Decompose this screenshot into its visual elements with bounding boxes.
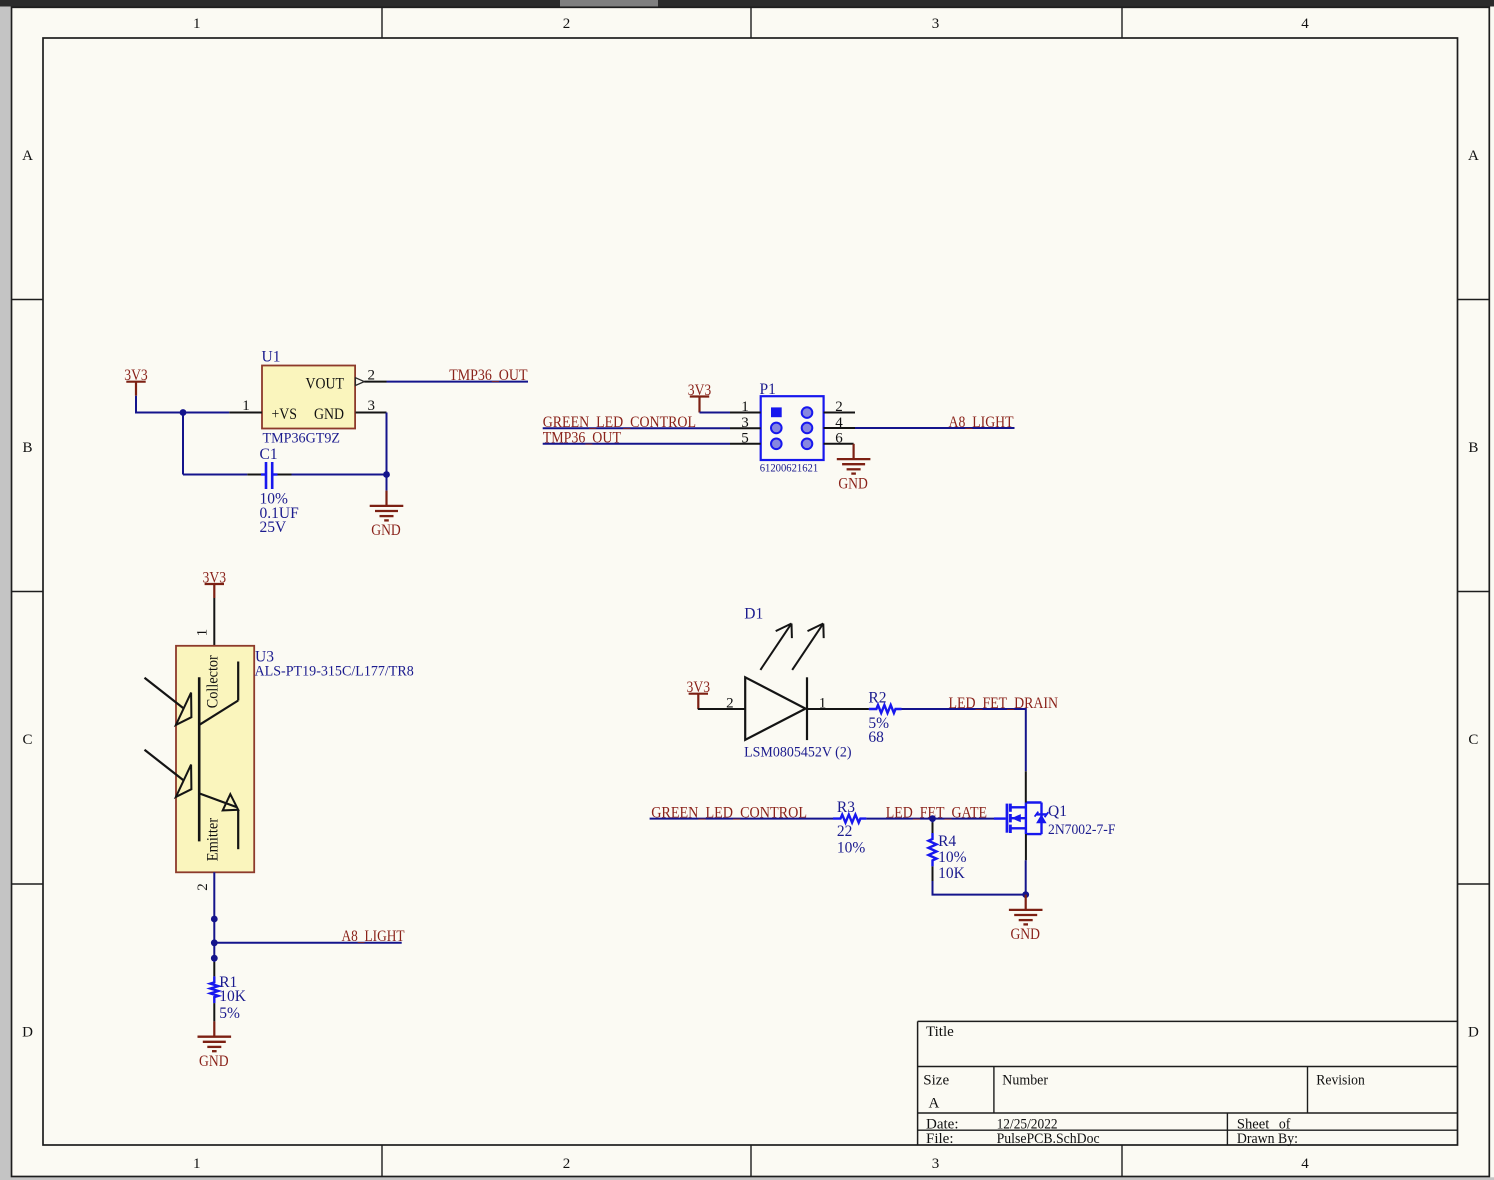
junction node at C1/GND: [383, 471, 390, 478]
svg-text:C: C: [22, 732, 32, 748]
svg-text:GND: GND: [314, 406, 344, 423]
P1 pin 3: [730, 415, 761, 431]
svg-text:Q1: Q1: [1048, 803, 1067, 820]
wire 3V3 to P1 pin 1: [700, 412, 731, 414]
net label LED_FET_DRAIN: [902, 695, 1059, 771]
junction node 2 on U3 net: [211, 939, 218, 946]
svg-text:LSM0805452V (2): LSM0805452V (2): [744, 745, 851, 761]
transistor Q1 2N7002-7-F: [994, 803, 1115, 839]
svg-text:61200621621: 61200621621: [760, 463, 819, 475]
junction node 1 on U3 net: [211, 916, 218, 923]
net label GREEN_LED_CONTROL at P1 pin 3: [543, 414, 730, 431]
svg-text:1: 1: [193, 1156, 201, 1172]
P1 pin 6: [824, 430, 854, 446]
svg-text:R3: R3: [837, 799, 855, 816]
junction node 3 on U3 net: [211, 955, 218, 962]
svg-text:22: 22: [837, 823, 853, 840]
svg-text:5: 5: [741, 430, 749, 446]
svg-text:6: 6: [835, 430, 843, 446]
P1 pin 4: [824, 415, 855, 431]
svg-text:A: A: [22, 148, 33, 164]
svg-text:ALS-PT19-315C/L177/TR8: ALS-PT19-315C/L177/TR8: [255, 663, 414, 679]
phototransistor U3 ALS-PT19-315C/L177/TR8: [176, 646, 414, 873]
wire U1 pin3 down: [386, 413, 388, 475]
svg-text:PulsePCB.SchDoc: PulsePCB.SchDoc: [997, 1131, 1100, 1147]
svg-text:Emitter: Emitter: [204, 817, 221, 861]
svg-text:GND: GND: [371, 522, 401, 539]
svg-text:2N7002-7-F: 2N7002-7-F: [1048, 822, 1115, 838]
net label TMP36_OUT at P1 pin 5: [543, 429, 730, 446]
svg-text:C: C: [1468, 732, 1478, 748]
junction node at U1 pin1 wire: [180, 409, 187, 416]
svg-text:2: 2: [563, 1156, 571, 1172]
svg-text:12/25/2022: 12/25/2022: [997, 1116, 1058, 1132]
Q1 source pin: [1025, 834, 1027, 860]
svg-text:1: 1: [195, 629, 211, 637]
wire U3 pin2 down to R1: [213, 872, 215, 962]
svg-text:3: 3: [932, 1156, 940, 1172]
wire 3V3 to U1 pin 1: [136, 396, 229, 413]
net label A8_LIGHT at P1 pin 4: [855, 414, 1015, 431]
svg-text:Title: Title: [926, 1024, 954, 1040]
light arrow 2 into U3: [145, 750, 192, 797]
U1 pin 3 GND: [356, 398, 387, 414]
net label A8_LIGHT at U3: [214, 928, 404, 945]
svg-text:3: 3: [932, 16, 940, 32]
svg-text:LED_FET_DRAIN: LED_FET_DRAIN: [949, 695, 1059, 712]
svg-text:LED_FET_GATE: LED_FET_GATE: [886, 804, 987, 821]
U1 pin 2 VOUT output pin: [355, 367, 386, 385]
P1 pin 2: [824, 399, 855, 415]
svg-text:A8_LIGHT: A8_LIGHT: [949, 414, 1014, 431]
svg-text:1: 1: [741, 399, 749, 415]
svg-text:2: 2: [835, 399, 843, 415]
U1 pin 1 +VS: [229, 398, 262, 414]
ground under U1: [370, 491, 404, 540]
junction node at R4 top: [929, 815, 936, 822]
svg-text:A: A: [1468, 148, 1479, 164]
svg-text:10K: 10K: [938, 865, 966, 882]
svg-text:GREEN_LED_CONTROL: GREEN_LED_CONTROL: [543, 414, 696, 431]
svg-text:GND: GND: [1010, 926, 1040, 943]
svg-text:GREEN_LED_CONTROL: GREEN_LED_CONTROL: [651, 804, 807, 821]
wire junction down to C1 row: [182, 413, 184, 475]
power 3V3 near D1: [687, 679, 711, 709]
svg-text:Date:: Date:: [926, 1116, 958, 1132]
resistor R4 10K: [929, 819, 967, 882]
svg-text:1: 1: [193, 16, 201, 32]
net label GREEN_LED_CONTROL at R3: [650, 804, 833, 821]
svg-text:1: 1: [242, 398, 250, 414]
svg-text:GND: GND: [199, 1053, 229, 1070]
svg-text:Sheet: Sheet: [1237, 1116, 1270, 1132]
svg-text:R2: R2: [868, 690, 886, 707]
wire C1 right to GND junction: [292, 474, 387, 476]
svg-text:4: 4: [1301, 1156, 1309, 1172]
svg-text:3: 3: [368, 398, 376, 414]
svg-text:P1: P1: [760, 381, 776, 398]
svg-text:R4: R4: [938, 833, 956, 850]
svg-text:File:: File:: [926, 1131, 954, 1147]
svg-text:3: 3: [741, 415, 749, 431]
svg-text:4: 4: [1301, 16, 1309, 32]
svg-text:68: 68: [868, 729, 884, 746]
ground under P1: [837, 444, 871, 493]
svg-text:B: B: [22, 440, 32, 456]
capacitor C1: [247, 446, 299, 536]
D1 pin 1: [807, 695, 869, 711]
svg-text:Revision: Revision: [1316, 1072, 1365, 1088]
svg-text:A: A: [929, 1095, 940, 1111]
U3 pin 2: [195, 883, 211, 891]
IC U1 TMP36GT9Z: [262, 348, 356, 446]
svg-text:4: 4: [835, 415, 843, 431]
svg-text:D: D: [1468, 1025, 1479, 1041]
Q1 drain pin: [1025, 771, 1027, 802]
resistor R2 68: [868, 690, 901, 746]
svg-text:2: 2: [368, 367, 376, 383]
net label LED_FET_GATE: [866, 804, 994, 821]
power 3V3 near U1: [124, 367, 148, 396]
svg-text:1: 1: [819, 695, 827, 711]
wire to C1 left: [183, 474, 247, 476]
svg-text:C1: C1: [260, 446, 278, 463]
svg-text:5%: 5%: [219, 1005, 240, 1022]
wire junction to ground: [386, 475, 388, 491]
connector P1 61200621621: [760, 381, 824, 475]
svg-text:10%: 10%: [938, 849, 967, 866]
svg-text:D1: D1: [744, 605, 763, 622]
U3 pin 1: [195, 598, 215, 646]
P1 pin 1: [730, 399, 761, 415]
svg-text:2: 2: [563, 16, 571, 32]
svg-text:2: 2: [195, 883, 211, 891]
power 3V3 near U3: [203, 570, 227, 599]
ground under R1: [198, 1021, 232, 1070]
light arrow 1 into U3: [145, 678, 192, 725]
svg-text:D: D: [22, 1025, 33, 1041]
svg-text:10K: 10K: [219, 988, 247, 1005]
wire Q1 source down: [1025, 860, 1027, 894]
D1 pin 2: [698, 696, 745, 712]
svg-text:25V: 25V: [260, 519, 288, 536]
power 3V3 near P1: [688, 382, 712, 413]
P1 pin 5: [730, 430, 761, 446]
svg-text:Number: Number: [1002, 1072, 1048, 1088]
svg-text:U1: U1: [262, 348, 281, 365]
svg-text:TMP36GT9Z: TMP36GT9Z: [263, 430, 341, 446]
LED emission arrow 1: [760, 624, 792, 670]
svg-text:+VS: +VS: [272, 406, 298, 423]
svg-text:TMP36_OUT: TMP36_OUT: [449, 367, 527, 384]
LED D1 LSM0805452V: [744, 605, 851, 760]
wire R4 bottom to Q1 source: [933, 881, 1026, 895]
resistor R3 22: [833, 799, 866, 856]
svg-text:GND: GND: [838, 475, 868, 492]
ground under Q1: [1009, 895, 1043, 944]
svg-text:VOUT: VOUT: [306, 376, 345, 393]
svg-text:Collector: Collector: [204, 654, 221, 708]
svg-text:2: 2: [726, 696, 734, 712]
LED emission arrow 2: [792, 624, 824, 670]
svg-text:B: B: [1468, 440, 1478, 456]
resistor R1 10K: [210, 962, 246, 1022]
svg-text:of: of: [1279, 1116, 1291, 1132]
svg-text:TMP36_OUT: TMP36_OUT: [543, 429, 621, 446]
svg-text:Drawn By:: Drawn By:: [1237, 1131, 1298, 1147]
svg-text:10%: 10%: [837, 839, 866, 856]
svg-text:A8_LIGHT: A8_LIGHT: [342, 928, 405, 945]
svg-text:Size: Size: [923, 1072, 949, 1088]
net label TMP36_OUT at U1 output: [387, 367, 529, 384]
junction node at Q1 source/GND: [1022, 891, 1029, 898]
